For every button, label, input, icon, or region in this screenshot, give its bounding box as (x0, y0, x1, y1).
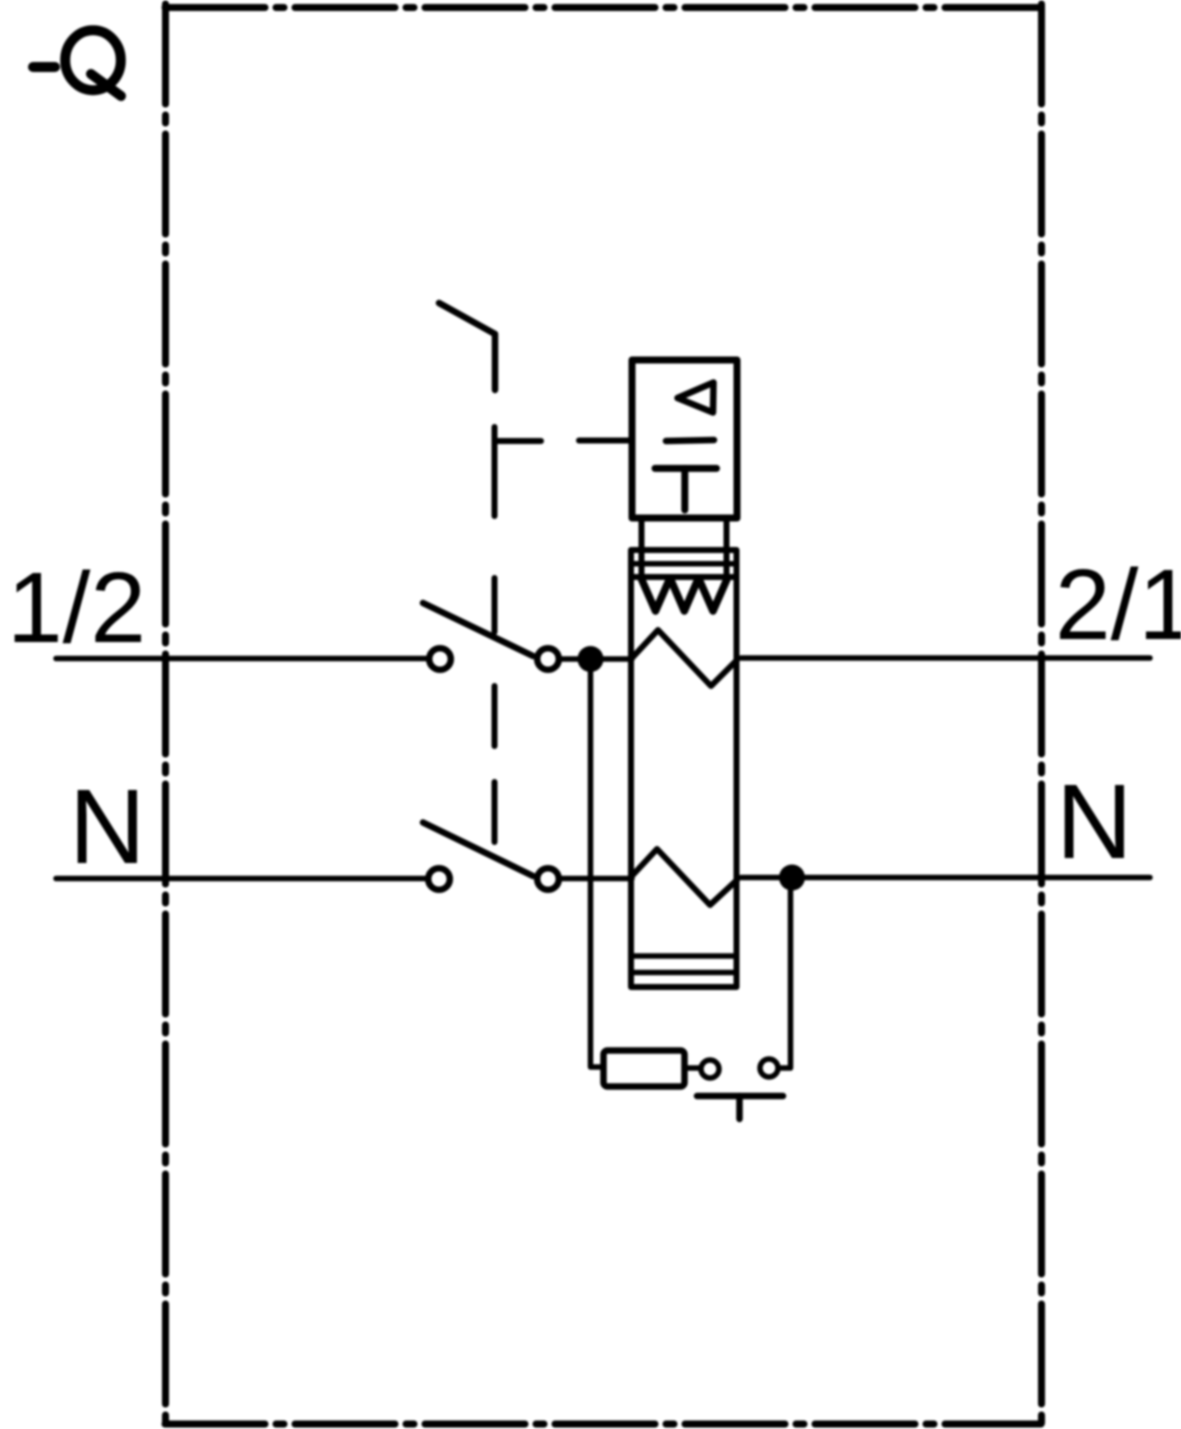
svg-text:2/1: 2/1 (1055, 549, 1181, 661)
neck left side (639, 520, 645, 576)
wire 1/2 right (741, 655, 1150, 661)
contact circle pole N left (428, 868, 450, 890)
svg-text:N: N (69, 768, 146, 886)
sawtooth coil teeth (641, 578, 728, 611)
wire resistor to button (688, 1065, 699, 1071)
sawtooth base line (631, 574, 737, 580)
wire pole1 to breaker (559, 656, 632, 662)
bottom plate line 2 (631, 970, 737, 976)
trip flag triangle (678, 383, 714, 413)
test circuit wire right (781, 878, 791, 1068)
contact circle pole 1 left (429, 648, 451, 670)
test button stem (736, 1096, 743, 1119)
neck right side (724, 520, 730, 576)
sensing coil body rectangle (631, 550, 737, 987)
test T-bar inside box (655, 465, 717, 472)
test resistor R1 (604, 1051, 685, 1087)
winding middle line (631, 561, 737, 567)
breaker relay box U1 (632, 360, 737, 518)
svg-text:N: N (1056, 763, 1133, 881)
pole N winding zigzag (630, 849, 737, 905)
contact circle pole N right (537, 868, 559, 890)
junction dot pole 1 (578, 646, 604, 672)
junction dot N (779, 865, 805, 891)
test circuit wire left (591, 660, 604, 1067)
linkage dashed vertical (492, 427, 498, 842)
actuator lever (439, 303, 495, 390)
switch blade pole N (423, 823, 533, 877)
bottom plate line 1 (631, 953, 737, 959)
wire N middle (559, 876, 632, 882)
switch blade pole 1 (423, 603, 533, 656)
test T-stem inside box (681, 468, 688, 510)
pole 1 winding zigzag (632, 630, 737, 686)
linkage line inside box (666, 440, 714, 441)
linkage dashed horizontal (495, 438, 629, 445)
test button contact right (760, 1059, 778, 1077)
wire N left (56, 876, 425, 882)
wire 1/2 left (56, 656, 426, 662)
device label -Q (33, 30, 121, 96)
svg-text:1/2: 1/2 (7, 552, 146, 664)
test button bar (697, 1093, 783, 1100)
test button contact left (701, 1060, 719, 1078)
enclosure border (dash-dot frame) (165, 4, 1042, 1424)
contact circle pole 1 right (537, 648, 559, 670)
wire N right (741, 875, 1150, 881)
